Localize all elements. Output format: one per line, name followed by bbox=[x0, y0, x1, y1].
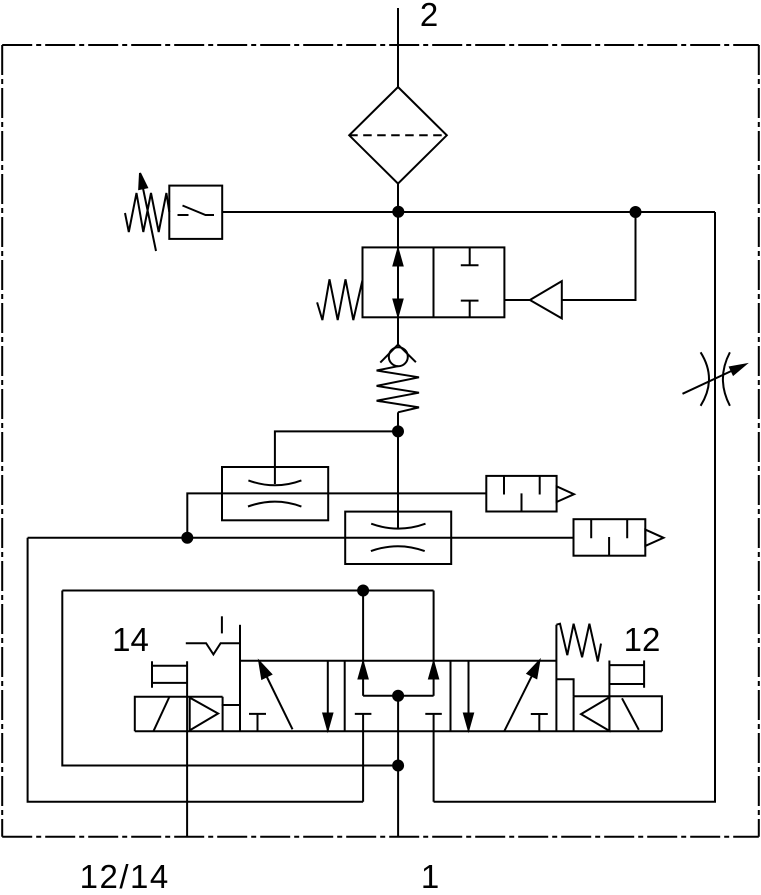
valve V1 up arrowhead bbox=[394, 250, 403, 266]
MV chamber3 flow diagonal bbox=[504, 666, 537, 731]
MV return spring right bbox=[556, 624, 601, 662]
solenoid Y12 step bbox=[556, 679, 573, 696]
node D junction bbox=[182, 533, 192, 543]
solenoid Y12 body bbox=[574, 696, 662, 731]
wire node C to R1 bbox=[275, 431, 398, 484]
svg-text:2: 2 bbox=[420, 0, 438, 33]
throttle TH1 left arc bbox=[701, 352, 709, 406]
silencer SL2 slots bbox=[591, 519, 627, 556]
pressure switch S1 adjust arrowhead bbox=[139, 173, 147, 189]
MV center blocked port right bbox=[425, 713, 442, 715]
valve MV right edge bbox=[555, 625, 557, 732]
silencer SL2 cone bbox=[645, 530, 663, 546]
check valve seat bbox=[380, 345, 416, 363]
MV chamber1 diagonal arrowhead bbox=[259, 662, 271, 679]
MV center riser left bbox=[362, 661, 364, 696]
node G junction bbox=[393, 761, 403, 771]
wire right duct x=715 bbox=[434, 212, 715, 802]
valve V1 down arrowhead bbox=[394, 300, 403, 316]
MV chamber1 flow diagonal bbox=[262, 666, 293, 729]
wire V1 to check valve bbox=[397, 317, 399, 344]
valve V1 pilot triangle bbox=[530, 281, 562, 318]
MV air spring symbol left bbox=[186, 643, 240, 654]
throttle TH1 adjust arrowhead bbox=[730, 365, 745, 375]
silencer SL1 cone bbox=[557, 486, 574, 502]
silencer SL1 body bbox=[486, 476, 556, 512]
node A junction bbox=[393, 207, 403, 217]
nozzle R2 body bbox=[345, 512, 451, 564]
MV chamber1 down arrowhead bbox=[323, 714, 332, 730]
check valve spring bbox=[377, 366, 419, 412]
wire pilot triangle to node B riser bbox=[562, 212, 636, 300]
pressure switch S1 spring bbox=[125, 193, 169, 232]
throttle TH1 right arc bbox=[723, 352, 730, 406]
solenoid Y12 pilot triangle bbox=[581, 697, 609, 731]
solenoid Y14 step bbox=[222, 704, 240, 706]
wire bridge drop left bbox=[362, 591, 364, 661]
MV manual override left bbox=[152, 661, 187, 688]
wire bridge rail y=590 bbox=[62, 590, 433, 592]
silencer SL2 body bbox=[574, 519, 646, 556]
check valve ball bbox=[389, 347, 408, 366]
MV manual override stem right bbox=[608, 661, 610, 697]
node B junction bbox=[631, 207, 641, 217]
MV chamber3 flow line bbox=[468, 661, 470, 731]
nozzle R2 upper arc bbox=[371, 524, 425, 529]
node E junction bbox=[393, 691, 403, 701]
MV manual override right bbox=[609, 661, 644, 688]
wire exhaust stub right bbox=[433, 714, 435, 802]
valve V1 return spring bbox=[317, 279, 362, 320]
wire pilot 14 drop bbox=[186, 661, 188, 837]
svg-text:14: 14 bbox=[112, 621, 149, 658]
valve MV bottom edge bbox=[135, 730, 662, 732]
MV chamber3 down arrowhead bbox=[464, 714, 473, 730]
solenoid Y14 coil diagonal bbox=[153, 697, 169, 731]
nozzle R1 upper arc bbox=[248, 480, 301, 485]
nozzle R1 body bbox=[222, 467, 328, 520]
solenoid Y14 pilot triangle bbox=[190, 698, 218, 731]
MV center riser right bbox=[433, 661, 435, 696]
MV chamber1 blocked port bbox=[249, 714, 266, 731]
MV chamber3 diagonal arrowhead bbox=[528, 661, 540, 678]
valve V1 divider bbox=[433, 247, 435, 317]
wire bridge drop right bbox=[433, 591, 435, 661]
filter F1 membrane dashed line bbox=[349, 134, 447, 136]
silencer SL1 slots bbox=[504, 476, 540, 512]
MV air spring tick bbox=[221, 616, 223, 633]
solenoid Y12 divider bbox=[608, 696, 610, 731]
wire outer loop left bbox=[28, 538, 364, 802]
MV center feed line bbox=[397, 696, 399, 766]
pressure switch S1 contact bbox=[178, 206, 215, 216]
valve MV top edge bbox=[240, 660, 556, 662]
filter F1 diamond bbox=[349, 87, 447, 184]
MV center up arrowhead left bbox=[359, 663, 368, 679]
wire V1 to pilot triangle bbox=[504, 299, 530, 301]
node F junction bbox=[358, 586, 368, 596]
MV center up arrowhead right bbox=[429, 663, 438, 679]
pressure switch S1 body bbox=[169, 186, 222, 239]
wire supply rail y=212 bbox=[222, 211, 715, 213]
pressure switch S1 adjust arrow line bbox=[142, 181, 157, 251]
wire inner loop left bbox=[62, 591, 398, 766]
wire exhaust duct y=493 bbox=[187, 493, 486, 537]
valve MV left edge bbox=[239, 625, 241, 731]
valve V1 body bbox=[363, 247, 505, 317]
valve V1 open path line bbox=[397, 247, 399, 317]
wire port 1 drop bbox=[397, 766, 399, 837]
solenoid Y12 coil diagonal bbox=[622, 698, 639, 730]
node C junction bbox=[393, 426, 403, 436]
wire node C to R2 bbox=[397, 431, 399, 528]
wire exhaust rail y=538 bbox=[28, 537, 574, 539]
nozzle R2 lower arc bbox=[371, 546, 425, 551]
MV chamber1 flow line bbox=[327, 661, 329, 731]
valve MV divider right bbox=[450, 661, 452, 732]
MV chamber3 blocked port bbox=[531, 714, 548, 731]
MV center blocked port left bbox=[355, 713, 372, 715]
svg-text:12: 12 bbox=[624, 621, 661, 658]
svg-text:12/14: 12/14 bbox=[80, 858, 170, 895]
valve MV divider left bbox=[344, 661, 346, 732]
valve V1 blocked port top bbox=[461, 247, 479, 265]
svg-text:1: 1 bbox=[421, 858, 439, 895]
wire exhaust stub left bbox=[362, 714, 364, 802]
port 2 line bbox=[397, 8, 399, 88]
throttle TH1 adjust arrow line bbox=[683, 368, 739, 394]
MV center manifold bar bbox=[363, 695, 434, 697]
wire filter to node A bbox=[397, 184, 399, 248]
nozzle R1 lower arc bbox=[248, 502, 301, 507]
wire check valve to node C bbox=[397, 412, 399, 431]
valve V1 blocked port bottom bbox=[461, 301, 479, 318]
solenoid Y14 body bbox=[135, 697, 223, 732]
